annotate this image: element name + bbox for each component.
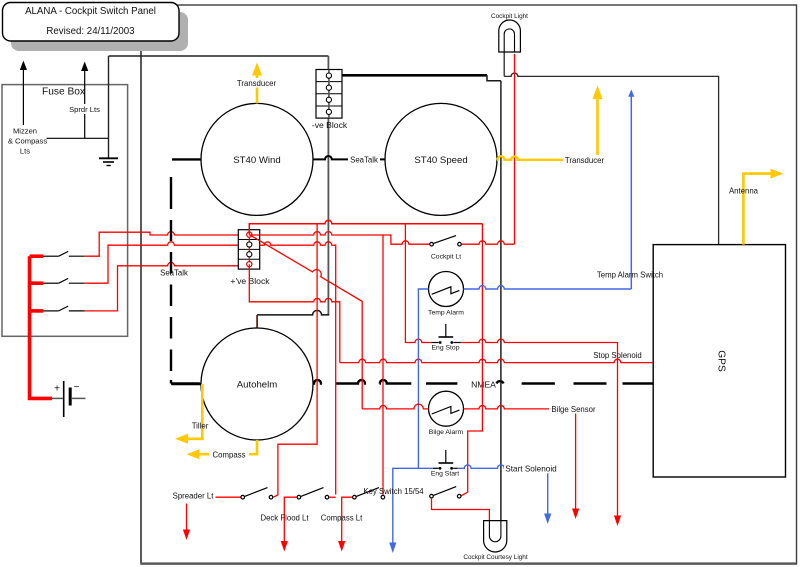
svg-text:-ve Block: -ve Block [312, 120, 348, 130]
wire red bus y=223.7 from +ve block top [249, 220, 482, 234]
blue arrow down (key switch) [389, 543, 396, 554]
red arrow down (stop solenoid) [614, 516, 621, 527]
+ve block [238, 230, 259, 269]
wire compass lt left arrow [342, 497, 353, 542]
svg-text:+: + [54, 384, 60, 395]
wire transducer yellow (speed) [497, 86, 603, 160]
-ve block [316, 70, 342, 119]
wire +ve top to cockpit lt switch [249, 232, 429, 245]
fuse switch 3 [30, 306, 85, 311]
wire panel top edge right of lamp [504, 52, 718, 245]
dashed enclosure vertical [170, 177, 172, 384]
label Start Solenoid [504, 463, 558, 474]
wire start solenoid blue [393, 465, 548, 543]
wire branch down to eng stop [405, 224, 431, 343]
wire ST40 Wind left stub [172, 158, 202, 160]
wire Autohelm left stub [172, 383, 202, 385]
svg-text:Tiller: Tiller [192, 422, 209, 431]
fuse box [2, 85, 128, 337]
wire +ve cell4 to stop solenoid [249, 264, 339, 362]
ground symbol [99, 158, 118, 165]
wire key switch to courtesy lamp [432, 498, 490, 520]
wire spreader label stub [216, 496, 241, 498]
wire temp alarm blue left down [418, 289, 428, 468]
wire ground bus horizontal to -ve block [109, 55, 329, 57]
wire mizzen arrow up [20, 61, 27, 126]
wire -ve block thick line to lamp step [342, 74, 487, 77]
svg-text:+'ve Block: +'ve Block [230, 276, 270, 286]
wire ground drop to courtesy light [500, 81, 502, 537]
svg-text:Transducer: Transducer [565, 156, 605, 165]
svg-text:Antenna: Antenna [729, 186, 759, 195]
svg-text:Key Switch 15/54: Key Switch 15/54 [363, 487, 424, 496]
svg-text:Eng Start: Eng Start [431, 471, 459, 478]
svg-text:ALANA - Cockpit Switch Panel: ALANA - Cockpit Switch Panel [25, 6, 156, 17]
wire antenna yellow [743, 169, 783, 245]
svg-text:Eng Stop: Eng Stop [432, 344, 460, 351]
svg-text:Transducer: Transducer [237, 79, 277, 88]
svg-text:ST40 Speed: ST40 Speed [414, 155, 467, 166]
cockpit lt switch [430, 236, 462, 246]
svg-text:Deck Flood Lt: Deck Flood Lt [260, 514, 309, 523]
NMEA dashed bus [171, 380, 653, 383]
svg-text:Bilge Sensor: Bilge Sensor [551, 405, 596, 414]
svg-text:Spreader Lt: Spreader Lt [173, 492, 215, 501]
svg-text:& Compass: & Compass [8, 137, 47, 146]
wire +ve cell2 down to deck flood [260, 242, 336, 495]
label Transducer (right) [564, 155, 606, 165]
svg-text:Cockpit Courtesy Light: Cockpit Courtesy Light [463, 554, 528, 561]
wire deck flood right riser [329, 496, 336, 498]
svg-text:Sprdr Lts: Sprdr Lts [69, 105, 100, 114]
title block [3, 3, 180, 42]
switch deck flood lt [297, 488, 329, 499]
svg-text:GPS: GPS [716, 350, 727, 372]
label Bilge Sensor [549, 404, 598, 414]
wire SeaTalk between instruments [313, 156, 385, 159]
label Sprdr Lts [68, 104, 101, 114]
wire cockpit light red lead [514, 54, 516, 244]
wire transducer arrow (wind) [252, 63, 262, 104]
wire fuse line 2 to +ve block [85, 242, 239, 283]
svg-text:Compass Lt: Compass Lt [321, 514, 363, 523]
wire sprdr lts arrow up [81, 62, 88, 139]
wire diagonal from +ve block top [249, 235, 362, 409]
red arrow down (spreader) [183, 504, 190, 541]
svg-text:Temp Alarm: Temp Alarm [428, 310, 464, 317]
svg-text:SeaTalk: SeaTalk [160, 269, 188, 278]
wire bus drop x=482.4 to key switch [461, 224, 483, 497]
wire autohelm top lead (dark red over black) [256, 315, 258, 329]
svg-text:Bilge Alarm: Bilge Alarm [429, 429, 464, 436]
wire eng stop output to solenoid junction [461, 339, 618, 516]
wire bilge alarm left lead [362, 404, 428, 409]
svg-text:−: − [74, 382, 80, 393]
wire bilge sensor line [464, 405, 576, 509]
eng stop button [431, 324, 460, 344]
svg-text:Cockpit Light: Cockpit Light [491, 13, 528, 20]
switch spreader lt [241, 488, 273, 499]
title block shadow [11, 12, 188, 51]
wire tiller yellow arrow [175, 384, 202, 444]
eng start button [433, 450, 458, 470]
ST40 Wind [201, 103, 313, 215]
wire ground bus vertical to -ve block and down [327, 56, 329, 315]
svg-text:Autohelm: Autohelm [237, 379, 278, 390]
bilge alarm [429, 391, 464, 426]
wire compass lt feed drop x=383 [382, 235, 384, 495]
svg-text:NMEA: NMEA [471, 379, 496, 389]
svg-text:Temp Alarm Switch: Temp Alarm Switch [597, 270, 663, 279]
wire ground bus vertical in fuse box [108, 56, 110, 158]
svg-text:Cockpit Lt: Cockpit Lt [431, 253, 461, 260]
fuse switch 1 [30, 251, 85, 256]
fuse switch 2 [30, 278, 85, 283]
label Transducer (top) [236, 78, 278, 88]
cockpit courtesy light lamp [484, 521, 507, 552]
wire compass yellow arrow [187, 440, 258, 459]
ST40 Speed [385, 103, 497, 215]
blue arrow down (start solenoid) [544, 514, 551, 525]
wire fuse line 3 SeaTalk to +ve block [85, 262, 239, 310]
switch compass lt [353, 488, 385, 499]
switch key [430, 487, 461, 498]
wire battery thick red feed [30, 256, 53, 398]
temp alarm [429, 272, 464, 307]
svg-text:Fuse Box: Fuse Box [42, 87, 85, 98]
wire ground horizontal above autohelm [257, 310, 329, 315]
red arrow down (bilge) [572, 509, 579, 520]
svg-text:Revised: 24/11/2003: Revised: 24/11/2003 [46, 26, 134, 37]
svg-text:ST40 Wind: ST40 Wind [233, 155, 280, 166]
label Compass [209, 449, 249, 459]
label Mizzen & Compass Lts [8, 127, 47, 156]
wire cockpit lt switch to lamp [462, 241, 515, 244]
Autohelm [201, 328, 313, 440]
svg-text:SeaTalk: SeaTalk [350, 156, 378, 165]
GPS box [653, 245, 785, 477]
wire deck flood left arrow [284, 497, 297, 542]
wire fuse line 1 to +ve block [85, 232, 250, 257]
wire fusebox internal horizontal [47, 137, 109, 139]
svg-text:Start Solenoid: Start Solenoid [505, 465, 557, 474]
wire stop solenoid line [340, 359, 653, 362]
svg-text:Compass: Compass [213, 451, 246, 460]
battery [52, 381, 86, 417]
cockpit light lamp [499, 20, 521, 52]
wire blue NMEA arrow up [628, 90, 634, 290]
svg-text:Lts: Lts [20, 147, 30, 156]
wire temp alarm blue right to arrow [464, 286, 632, 289]
wire spreader feed drop [273, 224, 317, 498]
svg-text:Mizzen: Mizzen [13, 127, 37, 136]
